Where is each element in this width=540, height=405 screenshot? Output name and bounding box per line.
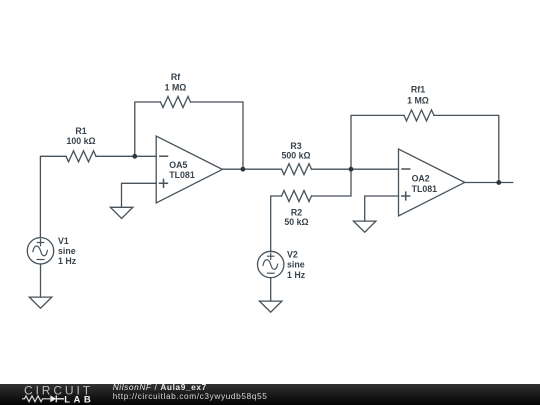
svg-text:100 kΩ: 100 kΩ xyxy=(66,136,95,146)
svg-text:R3: R3 xyxy=(290,141,301,151)
svg-text:50 kΩ: 50 kΩ xyxy=(284,217,308,227)
wire OA5 output to R3 xyxy=(222,168,281,170)
op-amp U2 OA2 triangle xyxy=(399,149,465,216)
svg-text:OA2: OA2 xyxy=(412,174,430,184)
V1 minus sign xyxy=(37,259,44,261)
wire Rf right to output vertical xyxy=(191,102,244,169)
ground OA2 xyxy=(353,221,376,232)
OA5 minus pin symbol xyxy=(160,155,168,157)
wire R2 to V2 xyxy=(271,196,282,251)
V2 plus sign xyxy=(268,253,274,259)
voltage source V1 circle xyxy=(27,238,53,264)
wire V1 to R1 vertical xyxy=(40,156,66,237)
node junction J2 xyxy=(241,167,246,172)
op-amp U1 OA5 triangle xyxy=(156,136,222,203)
wire V1 to ground xyxy=(40,264,42,297)
svg-text:OA5: OA5 xyxy=(169,160,187,170)
wire Rf left vertical xyxy=(135,102,161,156)
V1 plus sign xyxy=(37,239,43,245)
wire Rf1 left vertical xyxy=(351,115,404,169)
logo resistor squiggle xyxy=(22,396,50,402)
svg-text:sine: sine xyxy=(287,260,305,270)
V2 sine symbol xyxy=(263,260,278,270)
resistor R2 xyxy=(282,191,312,202)
svg-text:R2: R2 xyxy=(291,208,302,218)
wire R3 to OA2 minus input xyxy=(312,168,399,170)
svg-text:1 MΩ: 1 MΩ xyxy=(165,83,187,93)
wire R1 to OA5 minus input xyxy=(96,155,156,157)
svg-text:Rf: Rf xyxy=(171,72,180,82)
svg-text:1 MΩ: 1 MΩ xyxy=(407,96,429,106)
resistor R1 xyxy=(66,151,96,162)
node junction J3 xyxy=(349,167,354,172)
svg-text:http://circuitlab.com/c3ywyudb: http://circuitlab.com/c3ywyudb58q55 xyxy=(113,391,268,401)
wire V2 to ground xyxy=(270,278,272,301)
svg-text:500 kΩ: 500 kΩ xyxy=(281,151,310,161)
svg-text:1 Hz: 1 Hz xyxy=(287,270,306,280)
wire OA5 plus input to ground xyxy=(122,183,157,207)
svg-text:R1: R1 xyxy=(75,126,86,136)
wire OA2 plus input to ground xyxy=(365,196,399,221)
svg-text:V2: V2 xyxy=(287,250,298,260)
svg-text:Rf1: Rf1 xyxy=(411,85,425,95)
V1 sine symbol xyxy=(33,246,48,256)
wire Rf1 right vertical to OA2 output xyxy=(434,115,499,182)
ground V1 xyxy=(29,297,52,308)
V2 minus sign xyxy=(267,272,274,274)
svg-text:1 Hz: 1 Hz xyxy=(58,256,77,266)
wire OA2 output xyxy=(465,182,513,184)
voltage source V2 circle xyxy=(258,251,284,277)
footer bar xyxy=(0,384,540,405)
node junction J1 xyxy=(132,154,137,159)
OA2 plus pin symbol xyxy=(402,192,410,200)
resistor Rf xyxy=(161,97,191,108)
logo diode xyxy=(50,395,56,402)
ground OA5 xyxy=(110,207,132,218)
svg-text:TL081: TL081 xyxy=(169,170,195,180)
svg-text:V1: V1 xyxy=(58,236,69,246)
node junction J4 xyxy=(496,180,501,185)
wire node to R2 xyxy=(312,169,352,196)
ground V2 xyxy=(259,301,282,312)
OA5 plus pin symbol xyxy=(160,179,168,187)
svg-text:sine: sine xyxy=(58,246,76,256)
resistor R3 xyxy=(282,164,312,175)
resistor Rf1 xyxy=(404,110,434,121)
svg-text:TL081: TL081 xyxy=(412,184,438,194)
svg-text:LAB: LAB xyxy=(64,394,94,405)
OA2 minus pin symbol xyxy=(402,168,410,170)
